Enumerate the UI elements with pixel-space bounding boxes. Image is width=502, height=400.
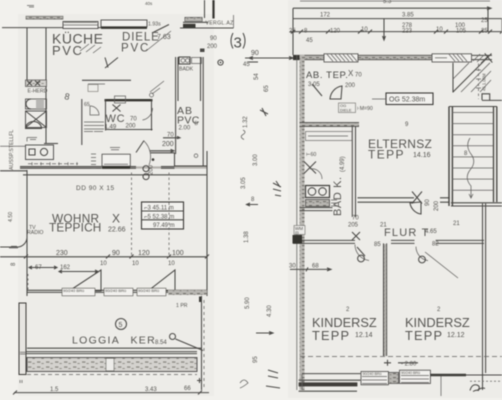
svg-text:3: 3 bbox=[234, 35, 242, 52]
svg-text:1.38: 1.38 bbox=[244, 231, 250, 243]
svg-text:65: 65 bbox=[264, 85, 270, 92]
svg-text:3.05: 3.05 bbox=[241, 177, 247, 189]
svg-text:45: 45 bbox=[243, 62, 250, 68]
svg-text:1.32: 1.32 bbox=[243, 116, 249, 128]
svg-text:40s: 40s bbox=[145, 1, 153, 6]
svg-text:4.50: 4.50 bbox=[8, 212, 14, 222]
svg-text:5.90: 5.90 bbox=[245, 297, 251, 309]
svg-text:3.00: 3.00 bbox=[253, 154, 259, 166]
svg-text:AUSSP.STELLFL: AUSSP.STELLFL bbox=[9, 130, 15, 170]
svg-text:4.30: 4.30 bbox=[267, 305, 273, 317]
svg-text:90: 90 bbox=[251, 50, 259, 57]
svg-text:54: 54 bbox=[254, 73, 260, 80]
svg-text:95: 95 bbox=[253, 356, 259, 363]
